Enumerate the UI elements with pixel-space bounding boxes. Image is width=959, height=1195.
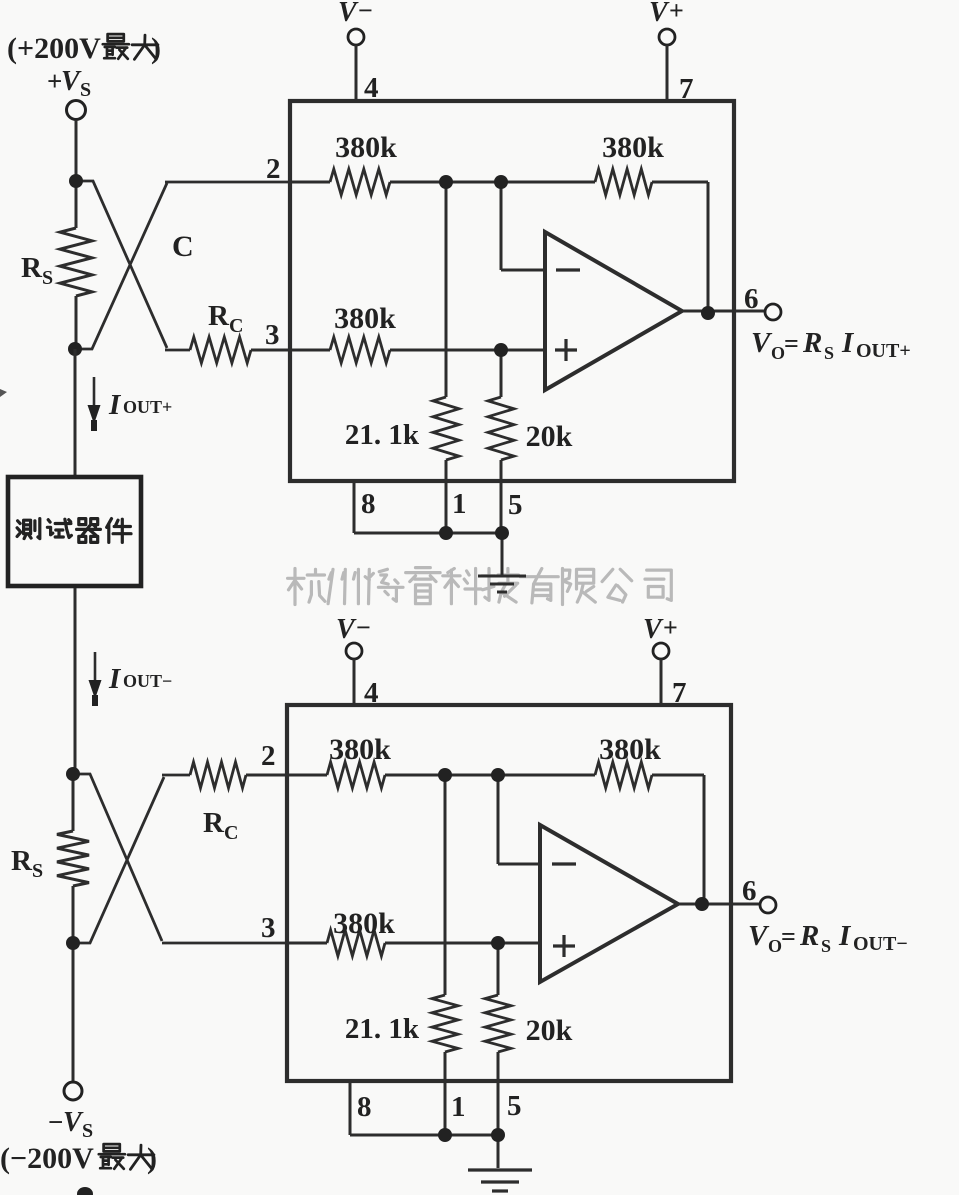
svg-text:+: + — [663, 613, 678, 642]
svg-text:7: 7 — [679, 73, 694, 105]
svg-text:+: + — [669, 0, 684, 25]
svg-text:V: V — [643, 614, 664, 645]
svg-text:380k: 380k — [599, 733, 661, 766]
svg-text:R: R — [208, 300, 230, 332]
svg-text:R: R — [802, 327, 822, 359]
svg-text:S: S — [32, 860, 43, 882]
svg-text:3: 3 — [265, 319, 280, 351]
svg-text:O: O — [768, 936, 782, 956]
svg-text:8: 8 — [361, 488, 376, 520]
svg-text:−: − — [358, 0, 373, 25]
svg-text:21. 1k: 21. 1k — [345, 419, 420, 451]
svg-text:OUT−: OUT− — [123, 671, 172, 691]
svg-text:6: 6 — [742, 875, 757, 907]
svg-text:S: S — [82, 1120, 93, 1142]
svg-text:V: V — [649, 0, 670, 28]
svg-text:I: I — [841, 327, 855, 359]
svg-text:S: S — [821, 936, 831, 956]
svg-text:380k: 380k — [335, 131, 397, 164]
svg-text:O: O — [771, 343, 785, 363]
svg-text:=: = — [781, 922, 796, 951]
svg-text:I: I — [838, 920, 852, 952]
svg-text:C: C — [229, 315, 243, 337]
svg-text:S: S — [42, 267, 53, 289]
svg-text:OUT+: OUT+ — [123, 397, 172, 417]
svg-text:I: I — [108, 663, 122, 695]
svg-text:2: 2 — [261, 740, 276, 772]
svg-text:I: I — [108, 389, 122, 421]
svg-text:V: V — [63, 1107, 84, 1138]
svg-text:C: C — [172, 230, 194, 263]
svg-text:OUT+: OUT+ — [856, 340, 911, 362]
svg-text:380k: 380k — [329, 733, 391, 766]
svg-text:S: S — [824, 343, 834, 363]
svg-text:V: V — [748, 920, 770, 952]
svg-text:(−200V: (−200V — [0, 1142, 94, 1175]
svg-text:C: C — [224, 822, 238, 844]
svg-text:20k: 20k — [526, 1014, 573, 1047]
svg-text:21. 1k: 21. 1k — [345, 1013, 420, 1045]
svg-text:R: R — [799, 920, 819, 952]
svg-text:S: S — [80, 79, 91, 101]
svg-text:1: 1 — [451, 1091, 466, 1123]
svg-text:R: R — [203, 807, 225, 839]
svg-text:V: V — [61, 66, 82, 97]
svg-text:5: 5 — [507, 1090, 522, 1122]
svg-text:V: V — [338, 0, 359, 28]
svg-text:2: 2 — [266, 153, 281, 185]
svg-text:R: R — [11, 845, 33, 877]
svg-text:V: V — [751, 327, 773, 359]
svg-text:V: V — [336, 614, 357, 645]
svg-text:=: = — [784, 329, 799, 358]
svg-text:7: 7 — [672, 677, 687, 709]
svg-text:OUT−: OUT− — [853, 933, 908, 955]
svg-text:4: 4 — [364, 72, 379, 104]
svg-text:R: R — [21, 252, 43, 284]
svg-text:(+200V: (+200V — [7, 32, 101, 65]
svg-text:1: 1 — [452, 488, 467, 520]
svg-text:3: 3 — [261, 912, 276, 944]
svg-text:−: − — [356, 613, 371, 642]
svg-text:4: 4 — [364, 677, 379, 709]
svg-text:−: − — [48, 1107, 63, 1137]
svg-text:380k: 380k — [602, 131, 664, 164]
svg-text:20k: 20k — [526, 420, 573, 453]
svg-text:6: 6 — [744, 283, 759, 315]
svg-text:380k: 380k — [333, 907, 395, 940]
svg-text:380k: 380k — [334, 302, 396, 335]
svg-text:8: 8 — [357, 1091, 372, 1123]
svg-text:5: 5 — [508, 489, 523, 521]
